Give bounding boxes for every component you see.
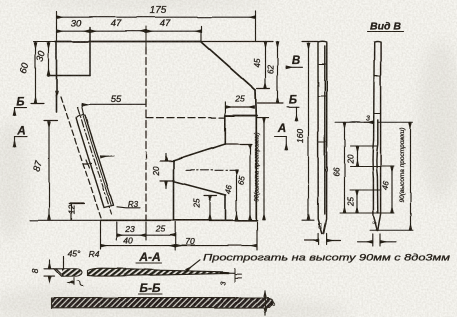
extension line for 65 dim <box>225 143 252 145</box>
view V strip outline <box>373 42 381 231</box>
planing zone boundary: upper vertical <box>224 116 226 144</box>
label B-B underline <box>139 293 163 295</box>
part outline: bottom edge <box>101 219 257 221</box>
dimension 90 height main <box>257 118 269 220</box>
dimension 3 view V <box>364 121 374 123</box>
section A-A end dim 3 <box>235 269 242 283</box>
hidden fold line (dashed) <box>61 97 102 220</box>
part outline: right edge <box>255 90 258 220</box>
dimension 66 view V <box>344 122 346 213</box>
part outline: top edge <box>33 41 56 43</box>
planing zone boundary: lower diagonal <box>173 181 226 195</box>
dimension 46 funnel <box>236 170 238 220</box>
dimension 8 knife piece <box>44 260 54 282</box>
R3 leader line <box>117 207 140 208</box>
knife strip bottom extension line <box>100 220 102 249</box>
knife strip leader arrow <box>101 155 115 158</box>
knife strip right edge <box>85 115 114 205</box>
section marker A right <box>275 137 287 151</box>
knife piece hatch <box>62 269 81 276</box>
part outline: bottom edge extension left <box>30 219 101 221</box>
dimension row 23/25 <box>117 222 175 250</box>
knife strip cross mark <box>84 160 92 169</box>
dimension 20 view V <box>356 146 358 167</box>
section marker B right <box>288 107 300 121</box>
part outline: planing step edge <box>225 115 257 117</box>
dimension row 30/47/47 <box>57 27 202 42</box>
chamfer width ticks <box>68 278 83 287</box>
section marker A left <box>15 137 28 147</box>
Vid V underline <box>368 31 404 33</box>
view V tick line 190 <box>350 189 381 191</box>
planing zone boundary: left vertical <box>173 161 175 220</box>
knife cross-section piece <box>54 269 82 276</box>
section A-A thick tail <box>220 272 228 275</box>
dimension 160 <box>302 42 318 221</box>
dimension 25 view V <box>356 190 358 213</box>
section A-A strip <box>88 268 223 276</box>
knife strip centerline (dash-dot) <box>78 107 112 214</box>
section B-B thickness dim 8 <box>264 291 266 315</box>
45 deg leader <box>63 257 65 269</box>
view V tick line 230 <box>370 229 413 231</box>
dimension 20 slot <box>160 154 174 189</box>
view V bottom thickness dim <box>357 234 396 246</box>
section A-A thin tail <box>228 272 235 274</box>
notch right edge <box>89 28 91 76</box>
dimension 60 <box>31 43 44 104</box>
dimension 175 <box>57 11 256 42</box>
left edge tick arrow <box>56 91 58 98</box>
view V tick line 166.5 <box>350 166 394 168</box>
knife strip left edge <box>76 118 104 208</box>
dimension 25 funnel <box>204 196 217 221</box>
dimension 55 <box>82 99 147 114</box>
side view strip divisions <box>318 64 327 143</box>
side view strip outline <box>318 41 327 233</box>
view V tick line 213 <box>340 212 394 214</box>
knife strip top cap <box>76 115 85 118</box>
dimension 12 <box>69 204 84 221</box>
dimension 65 funnel <box>249 144 251 220</box>
part outline: left edge <box>56 42 58 113</box>
dimension 62 <box>258 42 284 104</box>
leader from note to A-A strip <box>187 260 201 271</box>
centerline vertical (dashed) <box>145 27 147 48</box>
label A-A underline <box>137 262 162 264</box>
view V tick line 146 <box>350 145 377 147</box>
planing zone boundary: right vertical <box>225 195 227 220</box>
hidden line horizontal (dashed) <box>146 117 225 119</box>
dimension 87 <box>44 121 58 220</box>
part outline: right diagonal <box>201 42 256 91</box>
notch bottom edge <box>48 75 90 77</box>
knife strip bottom cap <box>104 205 114 207</box>
dimension 90 view V <box>410 122 412 230</box>
view V strip divisions <box>374 76 381 114</box>
section B-B strip <box>52 298 274 308</box>
planing zone boundary: upper diagonal <box>173 144 226 161</box>
view marker V right <box>286 66 303 68</box>
knife strip inner line <box>83 116 111 206</box>
knife piece chamfer <box>56 269 64 276</box>
slot centerline (dash-dot) <box>186 169 238 171</box>
dimension 25 top right <box>225 102 254 115</box>
part outline: top edge extension right <box>201 41 273 43</box>
dimension 45 <box>257 42 270 89</box>
side view bottom thickness dim <box>305 234 341 245</box>
dimension row 40/70 <box>101 222 258 250</box>
section marker B left <box>15 108 28 116</box>
dimension 30 vertical (notch height) <box>48 43 50 76</box>
view V tick line 122 <box>335 121 413 123</box>
dimension 46 view V <box>391 167 393 214</box>
